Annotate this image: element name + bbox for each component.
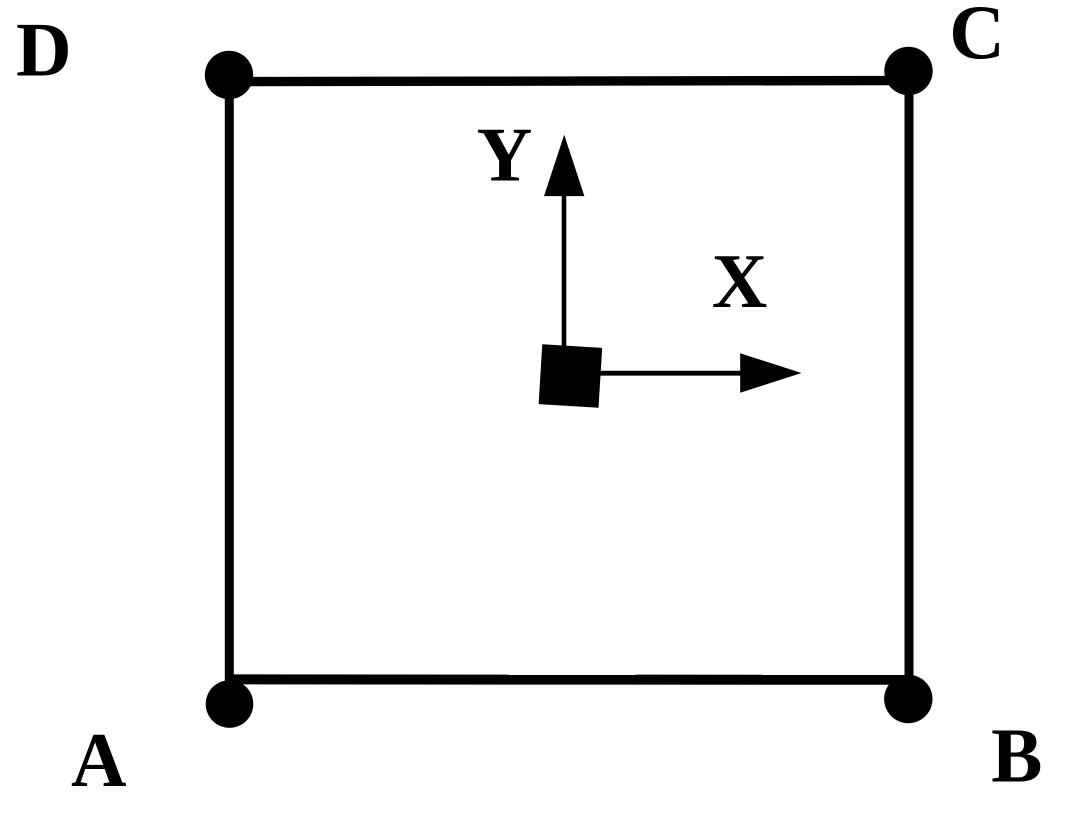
svg-text:C: C [949, 0, 1005, 75]
X axis arrowhead [740, 353, 801, 393]
Y axis wire [562, 192, 567, 376]
node D (top-left corner dot) [205, 51, 253, 99]
svg-text:D: D [16, 6, 72, 92]
wire: square right edge [905, 71, 914, 699]
svg-text:Y: Y [477, 111, 533, 197]
node B (bottom-right corner dot) [884, 675, 932, 723]
X axis wire [570, 371, 744, 376]
Y axis arrowhead [544, 135, 584, 196]
wire: square top edge [229, 81, 909, 82]
wire: square bottom edge [229, 674, 909, 684]
svg-text:B: B [991, 713, 1042, 799]
node C (top-right corner dot) [884, 47, 932, 95]
svg-text:X: X [712, 238, 768, 324]
node A (bottom-left corner dot) [206, 680, 254, 728]
origin marker (rotated filled square) [539, 344, 603, 408]
svg-text:A: A [71, 717, 127, 803]
wire: square left edge [225, 75, 234, 704]
